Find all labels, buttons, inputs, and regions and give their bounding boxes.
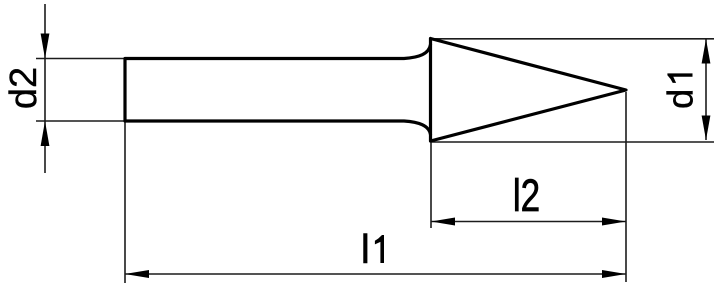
svg-text:l: l [361, 226, 370, 272]
arrow l2 right [602, 218, 626, 226]
dimension line l2 [431, 221, 626, 223]
arrow d1 bottom [702, 116, 711, 141]
arrow d2 top [41, 34, 50, 59]
arrow l1 left [125, 270, 149, 278]
dimension line d1 [705, 39, 707, 140]
cone outline [431, 39, 627, 142]
label d1 [660, 73, 701, 109]
shank outline [125, 45, 431, 135]
extension line d1 bottom [431, 141, 714, 143]
extension line l1 left [124, 121, 126, 283]
arrow d1 top [702, 39, 711, 64]
dimension line d2 [44, 4, 46, 173]
arrow l1 right [602, 270, 626, 278]
svg-text:l2: l2 [513, 170, 540, 221]
extension line l1 l2 right [625, 92, 627, 282]
svg-text:d: d [660, 89, 701, 109]
dimension line l1 [125, 273, 626, 275]
label l1 [361, 226, 384, 272]
extension line d2 top [36, 58, 125, 60]
arrow d2 bottom [41, 121, 50, 146]
extension line d1 top [431, 38, 714, 40]
svg-text:d2: d2 [3, 67, 45, 109]
arrow l2 left [431, 218, 455, 226]
extension line l2 left [430, 141, 432, 228]
extension line d2 bottom [36, 120, 125, 122]
